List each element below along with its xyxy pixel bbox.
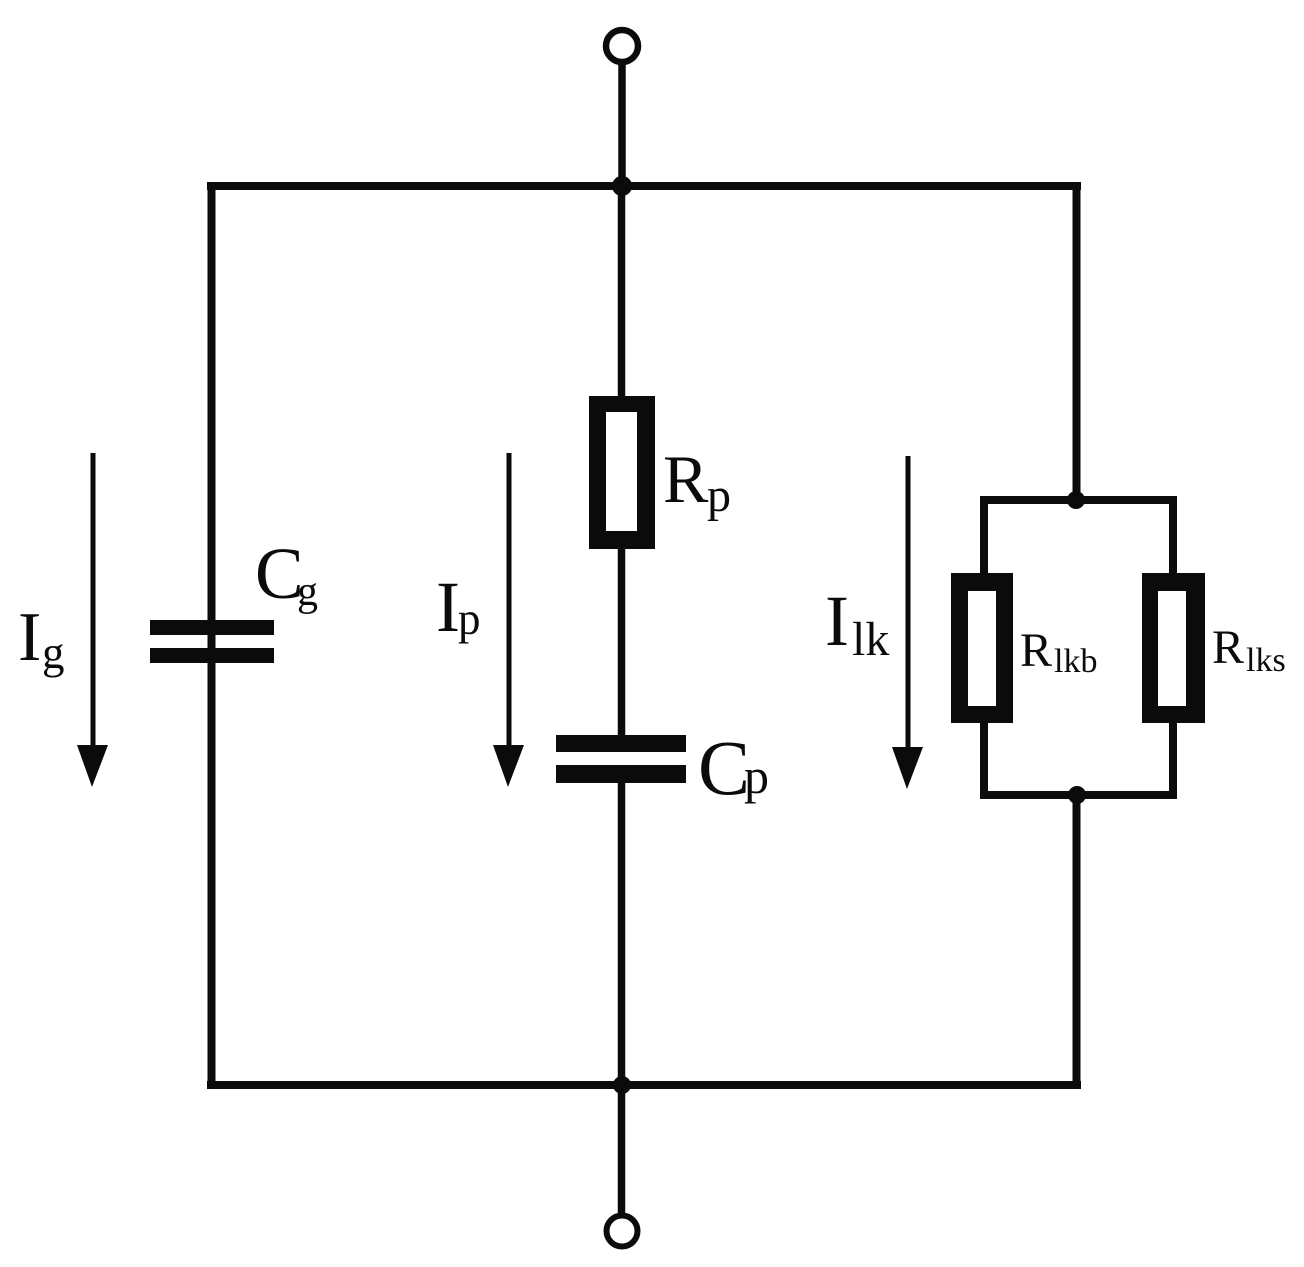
svg-text:I: I — [436, 567, 460, 647]
svg-text:R: R — [663, 441, 709, 517]
svg-text:R: R — [1020, 624, 1052, 677]
svg-text:p: p — [707, 469, 731, 522]
svg-text:lkb: lkb — [1054, 643, 1097, 680]
svg-text:p: p — [744, 748, 769, 804]
svg-text:lk: lk — [852, 613, 889, 666]
svg-text:C: C — [698, 724, 750, 811]
svg-text:p: p — [458, 594, 481, 644]
svg-text:R: R — [1212, 621, 1244, 674]
svg-text:lks: lks — [1246, 642, 1286, 679]
svg-text:g: g — [297, 569, 318, 615]
svg-text:I: I — [825, 581, 849, 661]
svg-text:I: I — [18, 599, 41, 676]
svg-text:g: g — [42, 628, 65, 678]
